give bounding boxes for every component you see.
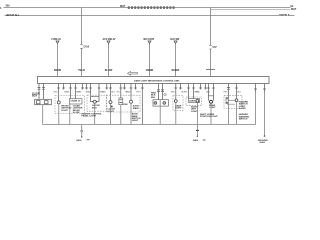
svg-text:BLK: BLK [237,91,241,93]
pin stub to bulb I [235,84,238,99]
bulb C [93,100,96,103]
svg-text:RED: RED [78,91,83,93]
component G dashed box [186,97,202,106]
svg-text:RED/BLK: RED/BLK [279,15,290,17]
pin stub 200.5 [199,84,202,90]
bulb G [196,99,199,102]
component I switch rect [226,98,228,104]
svg-text:WHT: WHT [136,91,141,93]
pin stub to switch I double ticks [227,84,230,98]
bulb H [210,100,213,103]
pin stub 86.5 [85,84,88,90]
svg-text:WHT: WHT [291,9,297,11]
ground G2 [196,125,198,137]
bulb E2 [163,102,166,105]
wire bulb G down to ground bus [196,102,198,124]
svg-text:G401: G401 [76,139,82,142]
svg-text:BLU: BLU [126,91,130,93]
pin stub 82.5 [81,84,84,90]
component D dashed box [107,95,141,112]
svg-text:RED: RED [224,91,229,93]
svg-text:BLK: BLK [111,91,115,93]
pin stub to bulb F [174,84,177,100]
svg-text:HOT AT ALL: HOT AT ALL [6,14,20,17]
pin stub to staple C right [98,84,101,97]
svg-text:BLU/W: BLU/W [105,70,113,72]
svg-text:PANEL LIGHT: PANEL LIGHT [82,115,97,118]
component B dashed box [55,96,85,114]
wire drop B2 middle [210,49,212,70]
svg-text:BLU: BLU [86,91,90,93]
wire bulb I to ground bus [236,102,238,125]
svg-text:BUL: BUL [151,97,156,99]
page arrow symbol left of bar text [128,72,138,76]
svg-text:LIGHT: LIGHT [209,107,216,109]
bulb D2 [130,100,133,103]
wire bulb D1 to ground bus [110,104,112,125]
bulb F [174,100,177,103]
connector stub pair into component E with double ticks [157,84,164,100]
svg-text:RED: RED [196,91,201,93]
component I switch contacts [227,99,228,103]
component D resistor inner marks [120,100,123,103]
svg-text:CIGAR LT: CIGAR LT [70,99,81,102]
pin stub to box B right [74,84,77,99]
svg-text:RED/B: RED/B [54,70,61,72]
svg-text:G402: G402 [193,139,199,142]
svg-text:LIGHT: LIGHT [132,120,139,122]
wire below switch I [227,103,235,106]
pin stub to box B left [69,84,72,99]
svg-text:LIGHT: LIGHT [107,111,114,113]
svg-text:LIGHT: LIGHT [61,110,68,112]
component G inner box [189,99,200,103]
svg-text:30A: 30A [6,4,11,7]
wire bus line 1b parallel right segment [211,9,291,11]
svg-text:ILLUM: ILLUM [239,108,246,110]
wire pass-through inside component E [159,100,161,106]
pin stub 106.8 [105,84,108,90]
svg-text:SWITCH: SWITCH [239,119,248,121]
pin stub to box G left [187,84,190,99]
wire bus line 2 [5,15,280,17]
wire drop B2 upper [210,8,212,46]
bulb B [57,101,60,104]
wire bus line 1 hot at all times [4,7,291,9]
pin stub 264.5 to ground G3 [263,84,266,93]
svg-text:BOX: BOX [32,96,37,98]
wire component A to ground bus corner [42,105,44,125]
svg-text:RED: RED [102,91,107,93]
pin stub pair into component A with double ticks [38,84,45,100]
connector break on drop B2 [209,45,211,49]
svg-text:GRN/B: GRN/B [146,70,154,72]
main bar: dash lights brightness controller [38,77,270,84]
svg-text:ILLUM: ILLUM [73,112,80,114]
connector break on drop B1 [80,44,82,48]
component A connector block [35,99,52,104]
component C dashed box [87,95,107,111]
component F dashed box [173,96,183,111]
svg-text:C57: C57 [213,47,218,49]
wire bulb H to ground bus [210,103,212,124]
wire drop B1 lower [81,48,83,76]
wire bulb B to ground bus [58,104,60,125]
svg-text:YEL/R: YEL/R [78,70,85,72]
wire drop from terminal x=57.5 [57,44,59,77]
wire drop from terminal x=108.5 [108,44,110,77]
wire switch I to bulb I [228,99,235,101]
wire resistor D to ground bus [120,105,122,125]
wire drop B2 lower [210,70,212,77]
svg-text:DASH LIGHT BRIGHTNESS CONTROL: DASH LIGHT BRIGHTNESS CONTROL UNIT [134,80,180,83]
pin stub through wire x=142 to ground bus [141,84,144,125]
bulb E1 [154,102,157,105]
component B inner box [69,99,82,104]
pin stub to bulb B [57,84,60,101]
ground bus right corner up to bar stub [255,92,257,125]
svg-text:MAIN: MAIN [133,107,139,110]
wire bus line 2 right stub [290,15,295,17]
wire drop from terminal x=175.5 [175,44,177,77]
svg-text:WHT: WHT [120,6,126,8]
pin stub to box G right [192,84,195,99]
wire component E to ground bus [159,106,161,124]
pin stub 205.5 [204,84,207,90]
bulb D1 [109,101,112,104]
svg-text:ACC RELAY: ACC RELAY [103,38,117,41]
staple wire into bulb C [91,96,100,101]
component I dashed box [224,95,242,108]
svg-text:G403: G403 [260,141,266,144]
component D small dark square [111,106,113,108]
bulb C side contacts [92,101,97,103]
wire bulb D2 to ground bus [130,103,132,124]
pin stub to resistor D [119,84,122,99]
pin stub to bulb D2 [130,84,133,101]
ground G3 long wire [264,92,266,135]
svg-text:POSITION LIGHT: POSITION LIGHT [200,116,218,118]
svg-text:C416: C416 [84,45,90,48]
pin stub 124.5 [123,84,126,90]
pin stub to staple C left [89,84,92,97]
svg-text:AUDIO: AUDIO [189,100,196,103]
bulb I [235,99,238,102]
shield hatching on bus line 1 [128,6,130,9]
wire bulb F to ground bus [175,102,177,124]
ground bus [43,124,256,126]
pin stub 63.5 [62,84,65,90]
ground G1 [81,125,83,131]
pin stub 255.5 to ground bus corner [254,84,257,93]
component E box [153,100,169,106]
component D resistor rect [119,98,123,105]
connector tick on drop B2 near bar [206,69,215,71]
wire drop B1 upper [81,8,83,45]
svg-text:RED: RED [171,91,176,93]
wire drop from terminal x=149.5 [149,44,151,77]
pin stub 135.5 [134,84,137,90]
pin stub to bulb D1 [109,84,112,101]
staple wires into bulb H [207,84,215,101]
pin stub 180.5 [179,84,182,90]
svg-text:RED/W: RED/W [172,70,180,72]
svg-text:RED: RED [54,91,59,93]
wire switch I to ground bus [228,104,230,125]
wire bulb C to ground bus [94,103,96,124]
wire box B to ground bus [69,104,71,125]
svg-text:DIM: DIM [123,104,127,106]
svg-text:AUX SW: AUX SW [170,38,180,41]
